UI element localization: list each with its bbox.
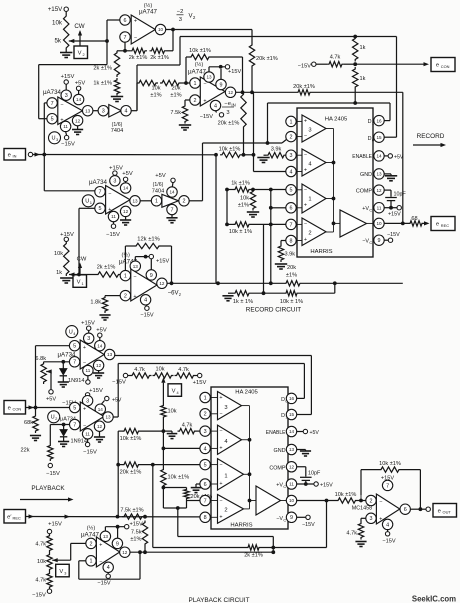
ground pin12 U734-4 [94, 437, 105, 442]
pot box V2 [74, 46, 88, 59]
terminal +5V ENABLE record [388, 154, 392, 158]
resistor 4.7k bias [327, 62, 344, 67]
wire riser x180 [179, 37, 181, 66]
arrow PLAYBACK head [68, 497, 74, 501]
svg-text:4: 4 [125, 109, 128, 115]
wire riser x403 to output node [402, 92, 404, 223]
pin 10 output U747-1 [155, 24, 165, 34]
wire 20k to eIN row [243, 129, 245, 155]
pin 11 +Vc playback [286, 479, 296, 489]
junction pin6 [269, 206, 273, 210]
pin 4 MC1458 [382, 519, 392, 529]
svg-text:2: 2 [83, 53, 85, 57]
svg-text:2: 2 [204, 412, 207, 418]
wire branch [136, 83, 138, 111]
svg-text:3: 3 [308, 128, 311, 134]
wire pin7 left [50, 424, 69, 426]
input box eCON playback [4, 401, 26, 415]
wire row293 [228, 292, 233, 294]
wire [144, 546, 146, 552]
ground row431 [167, 434, 178, 439]
wire fb riser left [360, 470, 362, 496]
svg-text:REC: REC [441, 223, 449, 228]
svg-text:−V: −V [276, 516, 283, 522]
svg-text:+: + [203, 99, 206, 105]
resistor 2k feedback A [130, 48, 147, 53]
wire to pin2 U747-4 [71, 542, 86, 544]
junction pin1 node [184, 81, 188, 85]
terminal +5V 7404-2 [171, 178, 175, 182]
resistor 7.5k vertical [142, 521, 147, 547]
svg-text:10k ±1%: 10k ±1% [379, 461, 401, 467]
pin 4 supply U747-2 [210, 100, 220, 110]
wire output U747-1 right [166, 29, 252, 31]
svg-text:6: 6 [290, 206, 293, 212]
svg-text:−15V: −15V [61, 142, 75, 148]
pin 2 U747-4 [86, 538, 96, 548]
svg-text:+15V: +15V [109, 166, 123, 172]
arrow into eCON [424, 62, 430, 66]
svg-text:4.7k: 4.7k [35, 542, 46, 548]
wire pin13 gnd playback [297, 449, 306, 451]
svg-text:−2: −2 [177, 9, 184, 15]
output box eREC [431, 217, 455, 231]
potentiometer V2 upper 10k [64, 14, 69, 50]
pin 9 supply U747-3 [146, 270, 156, 280]
svg-text:1k: 1k [360, 45, 366, 51]
svg-text:REC: REC [13, 516, 21, 521]
junction riser x270 [269, 223, 273, 227]
svg-text:−: − [134, 35, 137, 41]
wire eREC row [31, 516, 200, 518]
comparator 4 HA2405 playback [218, 425, 242, 454]
svg-text:COMP: COMP [356, 188, 373, 194]
wire pin11 down [87, 376, 89, 380]
wire bus [242, 405, 250, 407]
wire pin4 down [107, 573, 109, 575]
svg-text:11: 11 [86, 368, 91, 373]
svg-text:HARRIS: HARRIS [230, 523, 252, 529]
resistor 20k row465 [122, 462, 141, 467]
svg-text:20k: 20k [287, 265, 296, 271]
wire [344, 63, 355, 65]
junction pin6 riser [269, 188, 273, 192]
wire riser x270 long [270, 208, 272, 283]
junction row10k left [225, 223, 229, 227]
ground pin12 U734-2 [120, 220, 131, 225]
svg-text:−: − [304, 187, 307, 193]
svg-text:CON: CON [441, 64, 450, 69]
junction riser x216 [216, 281, 220, 285]
svg-text:+15V: +15V [320, 483, 333, 489]
pin 13 output U734-2 [130, 196, 140, 206]
wire to pin2 MC1458 [358, 500, 366, 502]
wire output MC1458 [410, 508, 426, 510]
inverter 7404-1 triangle [109, 105, 122, 118]
wire to pin16 playback [297, 397, 305, 399]
wire pin13 to 7404-1 [93, 110, 98, 112]
pin 5 U734-1 [47, 114, 57, 124]
resistor 10k eIN row [220, 152, 242, 157]
wire pin13 supply U747-4 [104, 527, 106, 531]
svg-text:20k ±1%: 20k ±1% [218, 120, 240, 126]
wire D1 net playback [115, 355, 312, 357]
svg-text:−15V: −15V [140, 313, 153, 319]
comparator 2 HA2405 playback [218, 495, 244, 524]
pin 2 HA2405 playback [200, 409, 210, 419]
svg-text:13: 13 [105, 415, 111, 420]
svg-text:14: 14 [76, 97, 82, 102]
svg-text:−15V: −15V [298, 64, 311, 70]
pin 7 U734-1 [47, 98, 57, 108]
svg-text:+15V: +15V [61, 74, 75, 80]
svg-text:1N914: 1N914 [68, 378, 84, 384]
wire feed right [178, 536, 273, 538]
svg-text:13: 13 [133, 264, 139, 269]
svg-text:−: − [379, 499, 382, 505]
wire [88, 330, 90, 333]
wire to pin7 U734-2 [44, 190, 95, 192]
svg-text:e: e [8, 405, 11, 411]
wire 20k to sum node [251, 68, 253, 92]
designator U4 [66, 326, 78, 338]
svg-text:2: 2 [183, 199, 186, 205]
svg-text:U: U [85, 199, 89, 205]
resistor 20k row283 [284, 281, 302, 286]
pin 3 HA2405 record [286, 150, 296, 160]
wire fb to pin1 [124, 246, 126, 270]
pin 8 HA2405 record [286, 235, 296, 245]
comparator U734-3 triangle [80, 340, 104, 369]
svg-text:10k: 10k [54, 251, 63, 257]
svg-text:4: 4 [386, 522, 389, 528]
svg-text:+: + [379, 517, 382, 523]
svg-text:22k: 22k [20, 448, 29, 454]
svg-text:12: 12 [228, 90, 234, 95]
wire pin13-4 [113, 416, 118, 418]
wire riser to 7404-1 [136, 65, 138, 111]
pin 12 output U747-2 [225, 87, 235, 97]
pin 14 ENABLE record [374, 151, 384, 161]
svg-text:13: 13 [107, 352, 113, 357]
svg-text:ENABLE: ENABLE [266, 430, 286, 436]
wire fb right [401, 469, 420, 471]
svg-text:2k ±1%: 2k ±1% [93, 66, 112, 72]
terminal +15V +Vc record [397, 206, 401, 210]
wire riser to pin7 U734-1 [43, 103, 45, 155]
wire row293 right [299, 292, 335, 294]
svg-text:1: 1 [155, 199, 158, 205]
wire output bus record [333, 129, 335, 233]
wire riser to pin10 playback [326, 501, 328, 548]
svg-text:−: − [108, 191, 111, 197]
junction riser x152 [151, 463, 155, 467]
output box eOUT [433, 504, 457, 518]
ground 10k ladder [247, 212, 259, 217]
svg-text:+15V: +15V [228, 69, 241, 75]
svg-text:16: 16 [289, 396, 295, 401]
svg-text:+15V: +15V [89, 388, 103, 394]
svg-text:20k: 20k [171, 86, 180, 92]
wire [186, 56, 189, 58]
pin 6 HA2405 record [286, 203, 296, 213]
svg-text:+V: +V [276, 483, 283, 489]
op-amp U747-3 triangle [131, 269, 157, 301]
svg-text:e: e [436, 63, 439, 69]
pin 7 MC1458 [382, 480, 392, 490]
svg-text:4: 4 [214, 103, 217, 109]
wire chain join [163, 507, 186, 509]
ground 1.8k [99, 315, 110, 320]
svg-text:ENABLE: ENABLE [352, 154, 372, 160]
svg-text:10k ±1%: 10k ±1% [168, 475, 190, 481]
svg-text:11: 11 [111, 214, 116, 219]
svg-text:V: V [77, 279, 81, 285]
svg-text:6: 6 [404, 507, 407, 513]
designator U2 [48, 411, 60, 423]
svg-text:GND: GND [274, 448, 286, 454]
wire pin12 [384, 189, 391, 191]
junction diode tap [61, 360, 65, 364]
ground V2 pot [60, 53, 72, 58]
svg-text:3: 3 [224, 405, 227, 411]
wire D1 row y103 [268, 102, 391, 104]
terminal -15V U734-1 [64, 135, 68, 139]
wire pin7 gnd [171, 215, 173, 218]
svg-text:+: + [304, 119, 307, 125]
wire [63, 437, 65, 441]
inverter 7404-2 triangle [162, 194, 179, 207]
svg-text:CON: CON [13, 407, 22, 412]
svg-text:12: 12 [376, 188, 382, 193]
svg-text:μA734: μA734 [43, 89, 62, 96]
label D1 playback [281, 413, 288, 420]
svg-text:5: 5 [204, 463, 207, 469]
terminal +5V ENABLE playback [303, 429, 307, 433]
pin 13 GND record [374, 169, 384, 179]
svg-text:−: − [99, 559, 102, 565]
svg-text:3: 3 [204, 429, 207, 435]
pot box V1 [73, 275, 87, 288]
wire row465 to pin5 [141, 464, 200, 466]
wire feed to fb row [272, 537, 274, 548]
svg-text:14: 14 [123, 186, 129, 191]
svg-text:1.8k: 1.8k [90, 300, 101, 306]
resistor 4.7k V3 upper [47, 534, 52, 553]
resistor 20k below sum node [241, 92, 246, 129]
terminal +15V U734-2 [113, 171, 117, 175]
wire pin7 left [44, 361, 70, 363]
pin 2 op-amp U747-2 [190, 95, 200, 105]
label -Vc record [362, 239, 372, 246]
ground 2k/1k chain [111, 97, 123, 102]
wire 7404-2 out [189, 200, 202, 202]
IC HA2405 record box [297, 108, 373, 257]
wire pin12 output row U747-4 [130, 551, 273, 553]
wire output bus playback [249, 406, 251, 509]
wire to pin4 record [254, 171, 286, 173]
svg-text:−15V: −15V [112, 380, 126, 386]
junction supply [219, 65, 223, 69]
pin 13 output U734-4 [103, 412, 113, 422]
svg-text:+5V: +5V [46, 397, 56, 403]
wire riser x267 [267, 103, 269, 143]
svg-text:12: 12 [97, 424, 103, 429]
terminal -15V U747-3 [145, 306, 149, 310]
svg-text:2: 2 [224, 508, 227, 514]
svg-text:10: 10 [376, 221, 382, 226]
svg-text:13: 13 [85, 108, 91, 113]
svg-text:1: 1 [124, 274, 127, 280]
terminal -15V MC1458 [385, 532, 389, 536]
wire V2 rail left [39, 64, 107, 66]
junction cap +Vc [389, 206, 393, 210]
svg-text:9: 9 [150, 273, 153, 279]
svg-text:V: V [188, 14, 192, 20]
svg-text:4.7k: 4.7k [178, 367, 189, 373]
svg-text:7: 7 [99, 190, 102, 196]
op-amp MC1458 triangle [376, 494, 399, 524]
pin 1 op-amp U747-2 [190, 78, 200, 88]
svg-text:V: V [59, 569, 63, 575]
wiper arrow V2 [69, 39, 75, 43]
svg-text:−e: −e [224, 101, 231, 107]
pin 4 HA2405 record [286, 166, 296, 176]
wire to pin1 [181, 82, 190, 84]
svg-text:13: 13 [103, 534, 109, 539]
svg-text:1: 1 [224, 474, 227, 480]
wire node to y64 rail [106, 20, 108, 65]
svg-text:2k ±1%: 2k ±1% [244, 553, 263, 559]
svg-text:1: 1 [82, 282, 84, 286]
wire pin9 riser U747-4 [117, 527, 119, 539]
svg-text:12: 12 [123, 209, 129, 214]
wire row448 to pin4 [163, 447, 199, 449]
svg-text:+5V: +5V [394, 154, 404, 160]
junction rail 1k chain [353, 35, 357, 39]
wire pin13 up [134, 257, 136, 261]
svg-text:10k: 10k [155, 367, 164, 373]
pin 3 U734-2 [110, 176, 120, 186]
svg-text:14: 14 [98, 407, 104, 412]
svg-text:2k ±1%: 2k ±1% [150, 55, 169, 61]
svg-text:9: 9 [290, 515, 293, 521]
svg-text:−: − [304, 222, 307, 228]
svg-text:−15V: −15V [32, 593, 46, 599]
ground 3.9k pin8 [275, 264, 287, 269]
designator U3 [49, 132, 61, 144]
svg-text:14: 14 [97, 343, 103, 348]
wire row 10k to pin7 [251, 223, 286, 225]
svg-text:HARRIS: HARRIS [310, 249, 332, 255]
pin 12 U734-1 [72, 115, 82, 125]
junction row465 left [116, 463, 120, 467]
resistor 20k chain [184, 488, 189, 501]
svg-text:3: 3 [87, 336, 90, 342]
svg-text:7: 7 [124, 35, 127, 41]
svg-text:+15V: +15V [130, 521, 143, 527]
svg-text:(½): (½) [195, 61, 204, 68]
svg-text:+V: +V [362, 206, 369, 212]
svg-text:10: 10 [289, 498, 295, 503]
resistor 10k input [137, 80, 158, 85]
svg-text:7: 7 [290, 222, 293, 228]
svg-text:μA747: μA747 [188, 69, 207, 76]
wiper arrow 6.8k [46, 369, 52, 373]
IC HA2405 playback box [211, 387, 288, 529]
pin 12 COMP playback [286, 462, 296, 472]
svg-text:14: 14 [376, 154, 382, 159]
svg-text:2: 2 [194, 98, 197, 104]
pin 4 supply U747-3 [140, 295, 150, 305]
wire pin12 gnd [125, 217, 127, 220]
svg-text:+: + [304, 237, 307, 243]
wire [65, 11, 67, 14]
svg-text:3: 3 [64, 572, 66, 576]
svg-text:1: 1 [308, 197, 311, 203]
pin 6 output MC1458 [400, 504, 410, 514]
resistor 2k vertical [114, 51, 119, 77]
wire [87, 396, 89, 398]
wire pin8 [281, 240, 286, 242]
resistor 20k input [160, 80, 181, 85]
wire D0 rail [180, 36, 397, 38]
junction row293 tap [333, 281, 337, 285]
svg-text:10k ±1%: 10k ±1% [189, 48, 211, 54]
arrow eCON [29, 405, 35, 409]
junction feedback pin7 [123, 49, 127, 53]
junction riser x270 [269, 281, 273, 285]
resistor 1k lower [353, 67, 358, 89]
resistor 1k row293 [233, 291, 251, 296]
svg-text:8: 8 [290, 238, 293, 244]
wire pin4 down [387, 530, 389, 532]
svg-text:±1%: ±1% [150, 93, 161, 99]
wire diode [62, 362, 64, 369]
junction riser x118 bottom [116, 515, 120, 519]
svg-text:+5V: +5V [310, 430, 320, 436]
wire pin9 up [220, 69, 222, 79]
wire gnd tap stem [171, 431, 173, 433]
svg-text:+: + [304, 168, 307, 174]
resistor 68k [33, 414, 38, 433]
wire pin10 playback out [297, 500, 336, 502]
wire pin11 playback [297, 483, 314, 485]
svg-text:7: 7 [386, 483, 389, 489]
wire to pin6 record [271, 207, 286, 209]
resistor 2k feedback B [150, 48, 167, 53]
wire riser x253 [253, 92, 255, 155]
pin 1 HA2405 record [286, 116, 296, 126]
svg-text:11: 11 [289, 482, 294, 487]
svg-text:+15V: +15V [156, 259, 169, 265]
input box eIN [4, 149, 26, 161]
svg-text:4.7k: 4.7k [346, 531, 357, 537]
ground diode2 [58, 442, 69, 447]
pin 2 HA2405 record [286, 131, 296, 141]
svg-text:+: + [83, 407, 86, 413]
junction output node [171, 28, 175, 32]
junction chain row448 [162, 447, 166, 451]
svg-text:1: 1 [90, 559, 93, 565]
input box eREC playback [4, 510, 26, 524]
svg-text:12: 12 [289, 464, 295, 469]
wire output to 20k [251, 30, 253, 44]
ground pin13 record [385, 176, 397, 181]
svg-text:10k ±1%: 10k ±1% [219, 147, 241, 153]
resistor 1k vertical [114, 78, 119, 96]
svg-text:μA747: μA747 [139, 9, 158, 16]
